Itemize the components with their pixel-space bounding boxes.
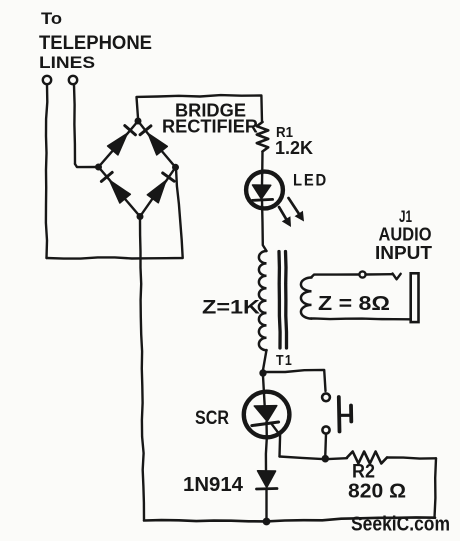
wire R1 to LED anode (261, 152, 264, 186)
label 1N914 (183, 474, 244, 496)
wire terminal1 to bridge right node (47, 168, 183, 259)
bridge rectifier diamond wires (99, 121, 176, 217)
svg-text:To: To (41, 9, 62, 28)
svg-text:J1: J1 (399, 207, 412, 226)
node bridge top (135, 118, 142, 125)
pushbutton S1 bottom contact (322, 426, 329, 433)
wire bridge top to R1 top (137, 95, 263, 122)
wire gate node to R2 (280, 457, 348, 460)
wire pushbutton bottom to gate node (324, 434, 327, 455)
transformer core (279, 252, 287, 349)
SCR gate wire (272, 424, 281, 457)
svg-text:R2: R2 (352, 462, 375, 483)
label BRIDGE RECTIFIER (162, 101, 258, 137)
svg-text:1N914: 1N914 (183, 474, 244, 496)
svg-text:T1: T1 (276, 352, 293, 369)
diode D3 (bottom to left) (101, 172, 130, 203)
jack J1 bar (411, 273, 419, 322)
wire connector to plug V (366, 274, 401, 280)
wire R2 to right rail (387, 458, 436, 459)
LED triangle and bar (252, 185, 272, 200)
svg-text:SCR: SCR (195, 408, 229, 429)
label LED (293, 172, 328, 190)
label J1 AUDIO INPUT (375, 207, 432, 263)
label R1 1.2K (275, 124, 313, 158)
svg-text:Z = 8Ω: Z = 8Ω (318, 293, 390, 315)
pushbutton bar and plunger (339, 397, 352, 432)
node bridge left (95, 164, 102, 171)
svg-text:INPUT: INPUT (375, 243, 432, 263)
wire LED cathode to transformer primary (262, 200, 267, 251)
svg-text:LINES: LINES (39, 53, 95, 72)
label R2 820 ohm (348, 462, 406, 503)
transformer T1 primary winding (259, 251, 267, 350)
right rail wire (435, 458, 437, 517)
svg-text:RECTIFIER: RECTIFIER (162, 117, 258, 137)
bottom rail wire (144, 517, 435, 521)
wire primary bottom to node (263, 350, 267, 370)
wire bridge bottom to bottom rail (140, 219, 144, 520)
watermark SeekiC.com (351, 514, 450, 536)
wire secondary bottom to jack (311, 317, 410, 320)
node bridge right (172, 164, 179, 171)
svg-text:LED: LED (293, 172, 328, 190)
diode 1N914 (257, 471, 278, 489)
terminal line 2 (69, 76, 77, 164)
svg-text:SeekiC.com: SeekiC.com (351, 514, 450, 536)
wire 1N914 to bottom rail (265, 490, 267, 520)
svg-text:AUDIO: AUDIO (379, 225, 432, 245)
diode D1 (left to top) (108, 126, 136, 155)
diode D4 (bottom to right) (147, 173, 174, 203)
node bridge bottom (137, 213, 144, 220)
diode D2 (right to top) (140, 126, 167, 155)
svg-text:TELEPHONE: TELEPHONE (39, 33, 152, 54)
node gate junction (322, 455, 330, 463)
label T1 (276, 352, 293, 369)
wire node to SCR anode (263, 376, 265, 406)
wire secondary top to connector (311, 275, 359, 278)
label Z=1K (202, 298, 260, 319)
wire T1 node to pushbutton top (266, 370, 326, 391)
pushbutton S1 top contact (322, 393, 330, 401)
wire terminal2 to bridge left node (75, 164, 99, 167)
LED arrow 2 (289, 198, 305, 222)
resistor R1 (257, 122, 268, 152)
LED circle (246, 172, 283, 209)
label "To TELEPHONE LINES" (39, 9, 152, 72)
label SCR (195, 408, 229, 429)
node bottom rail junction (263, 518, 271, 526)
SCR circle (244, 392, 290, 438)
node T1 bottom junction (259, 369, 266, 376)
wire SCR cathode down (265, 422, 268, 470)
terminal line 1 (43, 76, 51, 258)
svg-text:820 Ω: 820 Ω (348, 481, 406, 503)
LED arrow 1 (279, 207, 291, 227)
SCR triangle and cathode bar (252, 406, 279, 426)
resistor R2 (347, 452, 387, 464)
connector circle on secondary top (359, 271, 365, 277)
transformer secondary winding (301, 278, 312, 319)
svg-text:1.2K: 1.2K (275, 138, 313, 158)
svg-text:Z=1K: Z=1K (202, 298, 260, 319)
label Z = 8 ohm (318, 293, 390, 315)
